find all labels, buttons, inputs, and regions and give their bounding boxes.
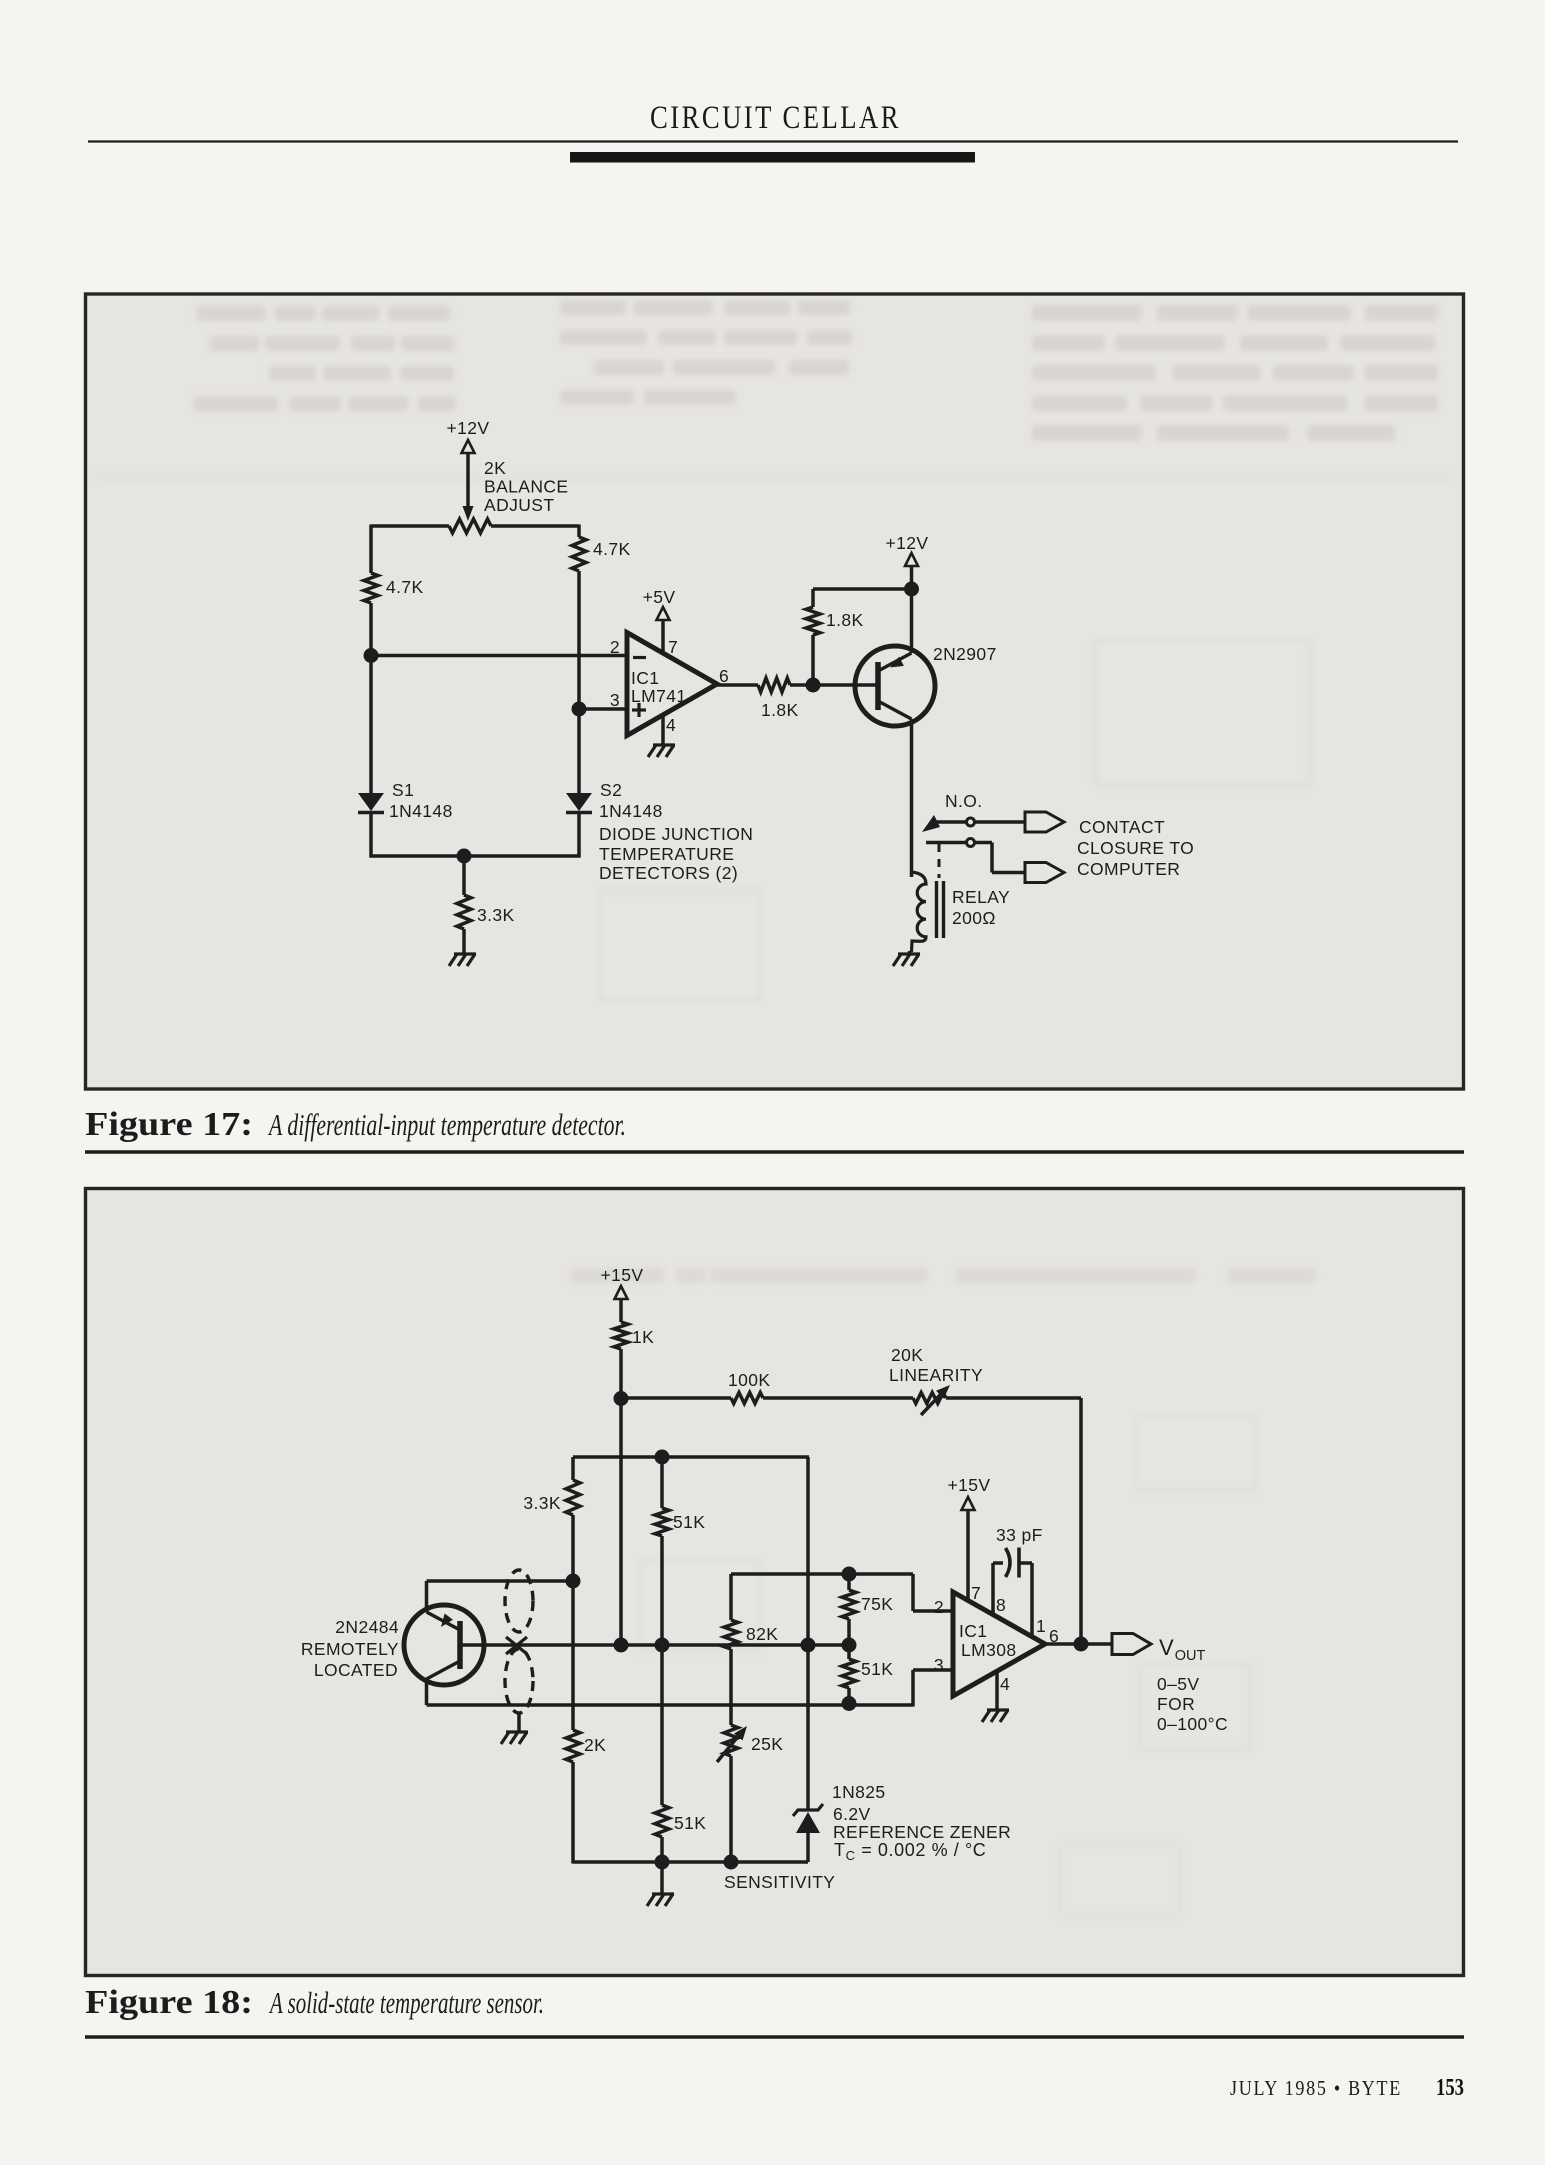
- svg-text:2N2907: 2N2907: [933, 644, 997, 664]
- node summing: [614, 1391, 629, 1406]
- svg-text:6.2V: 6.2V: [833, 1804, 871, 1824]
- wire bottom rail: [370, 854, 581, 858]
- potentiometer R 2K body: [449, 519, 491, 533]
- wire to base node: [790, 683, 876, 687]
- faint bleed rule and ghost boxes: [95, 478, 1455, 1000]
- svg-text:51K: 51K: [673, 1512, 705, 1532]
- wire base node up: [811, 635, 815, 685]
- wire left branch upper: [369, 525, 373, 574]
- emitter diagonal: [427, 1661, 461, 1679]
- resistor R 100K: [731, 1393, 763, 1404]
- resistor R 4.7K (right): [572, 537, 586, 571]
- wire 100K rail: [621, 1396, 731, 1400]
- svg-text:1.8K: 1.8K: [761, 700, 799, 720]
- wire pin4 to ground: [661, 714, 665, 744]
- wire pin3: [579, 707, 627, 711]
- wire 82K to 25K: [729, 1649, 733, 1725]
- node +12V junction: [904, 582, 919, 597]
- wire 3.3K to ground: [462, 929, 466, 953]
- contact fixed (lower): [926, 841, 966, 845]
- node 51K top: [655, 1450, 670, 1465]
- plus sign: [632, 708, 646, 711]
- node 75K/51K junction: [842, 1638, 857, 1653]
- svg-text:25K: 25K: [751, 1734, 783, 1754]
- svg-text:3.3K: 3.3K: [477, 905, 515, 925]
- resistor R 51K (lower): [655, 1805, 669, 1837]
- cable crossover X: [506, 1637, 527, 1654]
- relay core bars: [935, 881, 938, 938]
- contact wiper: [922, 815, 940, 832]
- wire base line: [460, 1643, 849, 1647]
- svg-text:A differential-input temperatu: A differential-input temperature detecto…: [268, 1107, 626, 1142]
- ground (op-amp pin4): [653, 743, 675, 746]
- connector (lower): [1025, 863, 1064, 883]
- svg-text:IC1: IC1: [959, 1621, 987, 1641]
- wire 1K to node: [619, 1349, 623, 1398]
- svg-text:REFERENCE ZENER: REFERENCE ZENER: [833, 1822, 1011, 1842]
- resistor R 3.3K: [457, 895, 471, 929]
- connector (upper): [1025, 812, 1064, 832]
- header thick bar: [570, 152, 975, 163]
- svg-text:20K: 20K: [891, 1345, 923, 1365]
- wire 25K to bottom rail: [729, 1756, 733, 1862]
- resistor R 1.8K (series): [758, 678, 790, 692]
- node output/feedback: [1074, 1637, 1089, 1652]
- svg-text:7: 7: [668, 637, 678, 657]
- caption rule 17: [85, 1150, 1464, 1154]
- svg-text:75K: 75K: [861, 1594, 893, 1614]
- wire pin3 step: [911, 1670, 915, 1707]
- resistor R 51K (input): [847, 1645, 851, 1659]
- svg-text:+12V: +12V: [886, 533, 929, 553]
- svg-text:LOCATED: LOCATED: [314, 1660, 398, 1680]
- svg-text:1N4148: 1N4148: [389, 801, 453, 821]
- svg-text:6: 6: [719, 666, 729, 686]
- resistor R 75K: [847, 1574, 851, 1590]
- svg-text:LM741: LM741: [631, 686, 687, 706]
- svg-text:COMPUTER: COMPUTER: [1077, 859, 1180, 879]
- svg-text:RELAY: RELAY: [952, 887, 1010, 907]
- resistor R 1K: [614, 1322, 628, 1349]
- node bottom rail/51K: [655, 1855, 670, 1870]
- capacitor C 33pF: [991, 1563, 995, 1614]
- resistor R 82K: [724, 1620, 738, 1649]
- svg-text:ADJUST: ADJUST: [484, 495, 554, 515]
- svg-text:S1: S1: [392, 780, 414, 800]
- svg-text:Figure 17:: Figure 17:: [85, 1106, 253, 1143]
- wire to upper connector: [975, 820, 1025, 824]
- svg-text:JULY 1985 • BYTE: JULY 1985 • BYTE: [1230, 2076, 1402, 2100]
- node zener/base line: [801, 1638, 816, 1653]
- resistor R 3.3K: [566, 1480, 580, 1515]
- svg-text:TEMPERATURE: TEMPERATURE: [599, 844, 734, 864]
- contact pivot circle (lower): [967, 839, 975, 847]
- relay actuator dashed: [938, 844, 941, 878]
- svg-text:4: 4: [1000, 1674, 1010, 1694]
- collector diagonal: [878, 701, 912, 719]
- transistor Q 2N2907: [855, 646, 935, 726]
- wire to 20K pot: [763, 1396, 913, 1400]
- svg-text:8: 8: [996, 1595, 1006, 1615]
- svg-text:+5V: +5V: [643, 587, 676, 607]
- wire to lower connector: [975, 841, 992, 845]
- faint ghost boxes (fig 18): [640, 1415, 1255, 1915]
- wire bottom rail (sensitivity): [573, 1860, 808, 1864]
- wire rail left corner down: [571, 1457, 575, 1480]
- ground (op-amp pin4): [987, 1708, 1009, 1711]
- svg-text:N.O.: N.O.: [945, 791, 983, 811]
- potentiometer R 20K LINEARITY: [913, 1393, 946, 1404]
- transistor Q 2N2484: [404, 1605, 484, 1685]
- svg-text:1: 1: [1036, 1616, 1046, 1636]
- contact pivot circle (upper): [967, 818, 975, 826]
- svg-text:CIRCUIT CELLAR: CIRCUIT CELLAR: [650, 100, 901, 136]
- wire 51K to base line: [660, 1536, 664, 1645]
- wire collector loop: [425, 1581, 429, 1612]
- node base/1K column: [614, 1638, 629, 1653]
- figure 17 panel box: [86, 294, 1464, 1089]
- wire S2 to bottom rail: [577, 813, 581, 858]
- wire to 3.3K: [462, 856, 466, 895]
- node bottom rail/25K: [724, 1855, 739, 1870]
- svg-text:SENSITIVITY: SENSITIVITY: [724, 1872, 835, 1892]
- wire feedback: [946, 1396, 1081, 1400]
- svg-text:A solid-state temperature sens: A solid-state temperature sensor.: [269, 1985, 544, 2020]
- emitter diagonal with arrow: [878, 653, 912, 671]
- cable shield ground: [517, 1713, 521, 1731]
- wire 51K column: [660, 1457, 664, 1508]
- shielded cable ellipses: [505, 1570, 533, 1632]
- node base/51K: [655, 1638, 670, 1653]
- node collector junction: [566, 1574, 581, 1589]
- wire right branch to node: [577, 571, 581, 793]
- svg-text:CONTACT: CONTACT: [1079, 817, 1165, 837]
- potentiometer R 25K: [724, 1725, 738, 1756]
- svg-text:1N4148: 1N4148: [599, 801, 663, 821]
- wire to ground: [660, 1862, 664, 1893]
- wire pin2: [371, 654, 627, 658]
- svg-text:REMOTELY: REMOTELY: [301, 1639, 399, 1659]
- svg-text:0–5V: 0–5V: [1157, 1674, 1199, 1694]
- diode S2 1N4148: [566, 793, 592, 811]
- svg-text:DETECTORS (2): DETECTORS (2): [599, 863, 738, 883]
- svg-text:0–100°C: 0–100°C: [1157, 1714, 1228, 1734]
- svg-text:S2: S2: [600, 780, 622, 800]
- svg-text:BALANCE: BALANCE: [484, 477, 569, 497]
- ground (divider): [652, 1892, 674, 1895]
- svg-text:+15V: +15V: [948, 1475, 991, 1495]
- wire collector down: [910, 719, 914, 877]
- svg-text:82K: 82K: [746, 1624, 778, 1644]
- svg-text:IC1: IC1: [631, 668, 659, 688]
- svg-text:153: 153: [1436, 2075, 1464, 2101]
- svg-text:1K: 1K: [632, 1327, 654, 1347]
- ground (relay): [908, 952, 912, 953]
- potentiometer wiper arrow: [463, 506, 474, 521]
- svg-text:200Ω: 200Ω: [952, 908, 996, 928]
- svg-text:2: 2: [934, 1597, 944, 1617]
- wire right branch upper: [577, 525, 581, 538]
- svg-text:3: 3: [934, 1655, 944, 1675]
- svg-text:2N2484: 2N2484: [335, 1617, 399, 1637]
- header thin rule: [88, 140, 1458, 142]
- wire 51K column lower: [660, 1645, 664, 1805]
- resistor R 2K: [566, 1730, 580, 1762]
- node 51K/emitter rail: [842, 1696, 857, 1711]
- svg-text:100K: 100K: [728, 1370, 770, 1390]
- relay coil 200 ohm: [912, 872, 927, 952]
- wire down to base line: [619, 1398, 623, 1645]
- wire output: [1045, 1642, 1112, 1646]
- svg-text:4: 4: [666, 715, 676, 735]
- wire pin2 step: [911, 1574, 915, 1611]
- wire emitter loop: [425, 1679, 429, 1705]
- wire +12V to emitter: [910, 589, 914, 653]
- ground (3.3K): [454, 952, 476, 955]
- zener D 1N825: [793, 1804, 823, 1816]
- svg-text:4.7K: 4.7K: [386, 577, 424, 597]
- node noninverting input junction: [572, 702, 587, 717]
- wire 2K to bottom rail: [571, 1762, 575, 1864]
- svg-text:+15V: +15V: [601, 1265, 644, 1285]
- svg-text:1N825: 1N825: [832, 1782, 886, 1802]
- wire S1 to bottom rail: [369, 813, 373, 858]
- resistor R 4.7K (left): [364, 573, 378, 603]
- wire pin4 ground: [995, 1671, 999, 1709]
- wire op-amp output: [717, 683, 758, 687]
- svg-text:TC = 0.002 % / °C: TC = 0.002 % / °C: [834, 1840, 986, 1863]
- resistor R 51K (upper): [655, 1508, 669, 1536]
- svg-text:2K: 2K: [484, 458, 506, 478]
- svg-text:2: 2: [610, 637, 620, 657]
- faint bleed-through text: [193, 300, 1438, 441]
- svg-text:51K: 51K: [861, 1659, 893, 1679]
- wire 3.3K to collector node: [571, 1515, 575, 1581]
- node inverting input junction: [364, 648, 379, 663]
- wire top rail: [371, 524, 449, 528]
- wire divider rail: [573, 1455, 809, 1459]
- connector Vout: [1112, 1634, 1151, 1655]
- svg-text:3: 3: [610, 690, 620, 710]
- svg-text:+12V: +12V: [447, 418, 490, 438]
- svg-text:51K: 51K: [674, 1813, 706, 1833]
- svg-text:LM308: LM308: [961, 1640, 1017, 1660]
- wire to bottom rail: [660, 1837, 664, 1862]
- resistor R 1.8K (pullup): [806, 607, 820, 635]
- wire 82K top rail: [731, 1572, 913, 1576]
- figure 18 panel box: [86, 1189, 1464, 1976]
- node 75K top: [842, 1567, 857, 1582]
- svg-text:Figure 18:: Figure 18:: [85, 1984, 253, 2021]
- collector diagonal with arrow: [427, 1612, 461, 1630]
- minus sign: [633, 656, 646, 659]
- svg-text:4.7K: 4.7K: [593, 539, 631, 559]
- faint bleed-through caption: [570, 1268, 1315, 1283]
- svg-text:1.8K: 1.8K: [826, 610, 864, 630]
- svg-text:DIODE JUNCTION: DIODE JUNCTION: [599, 824, 753, 844]
- node 3.3K junction: [457, 849, 472, 864]
- node base junction: [806, 678, 821, 693]
- svg-text:2K: 2K: [584, 1735, 606, 1755]
- caption rule 18: [85, 2035, 1464, 2039]
- svg-text:FOR: FOR: [1157, 1694, 1195, 1714]
- wire collector column down: [571, 1581, 575, 1730]
- diode S1 1N4148: [358, 793, 384, 811]
- svg-text:CLOSURE TO: CLOSURE TO: [1077, 838, 1194, 858]
- svg-text:3.3K: 3.3K: [523, 1493, 561, 1513]
- wire 82K corner down: [729, 1574, 733, 1620]
- wire pullup top: [811, 589, 815, 607]
- svg-text:7: 7: [971, 1583, 981, 1603]
- op-amp U IC1 LM308: [953, 1592, 1045, 1696]
- op-amp U IC1 LM741: [627, 633, 717, 736]
- svg-text:33 pF: 33 pF: [996, 1525, 1043, 1545]
- wire zener column: [806, 1457, 810, 1810]
- wire left branch to node: [369, 603, 373, 793]
- svg-text:LINEARITY: LINEARITY: [889, 1365, 983, 1385]
